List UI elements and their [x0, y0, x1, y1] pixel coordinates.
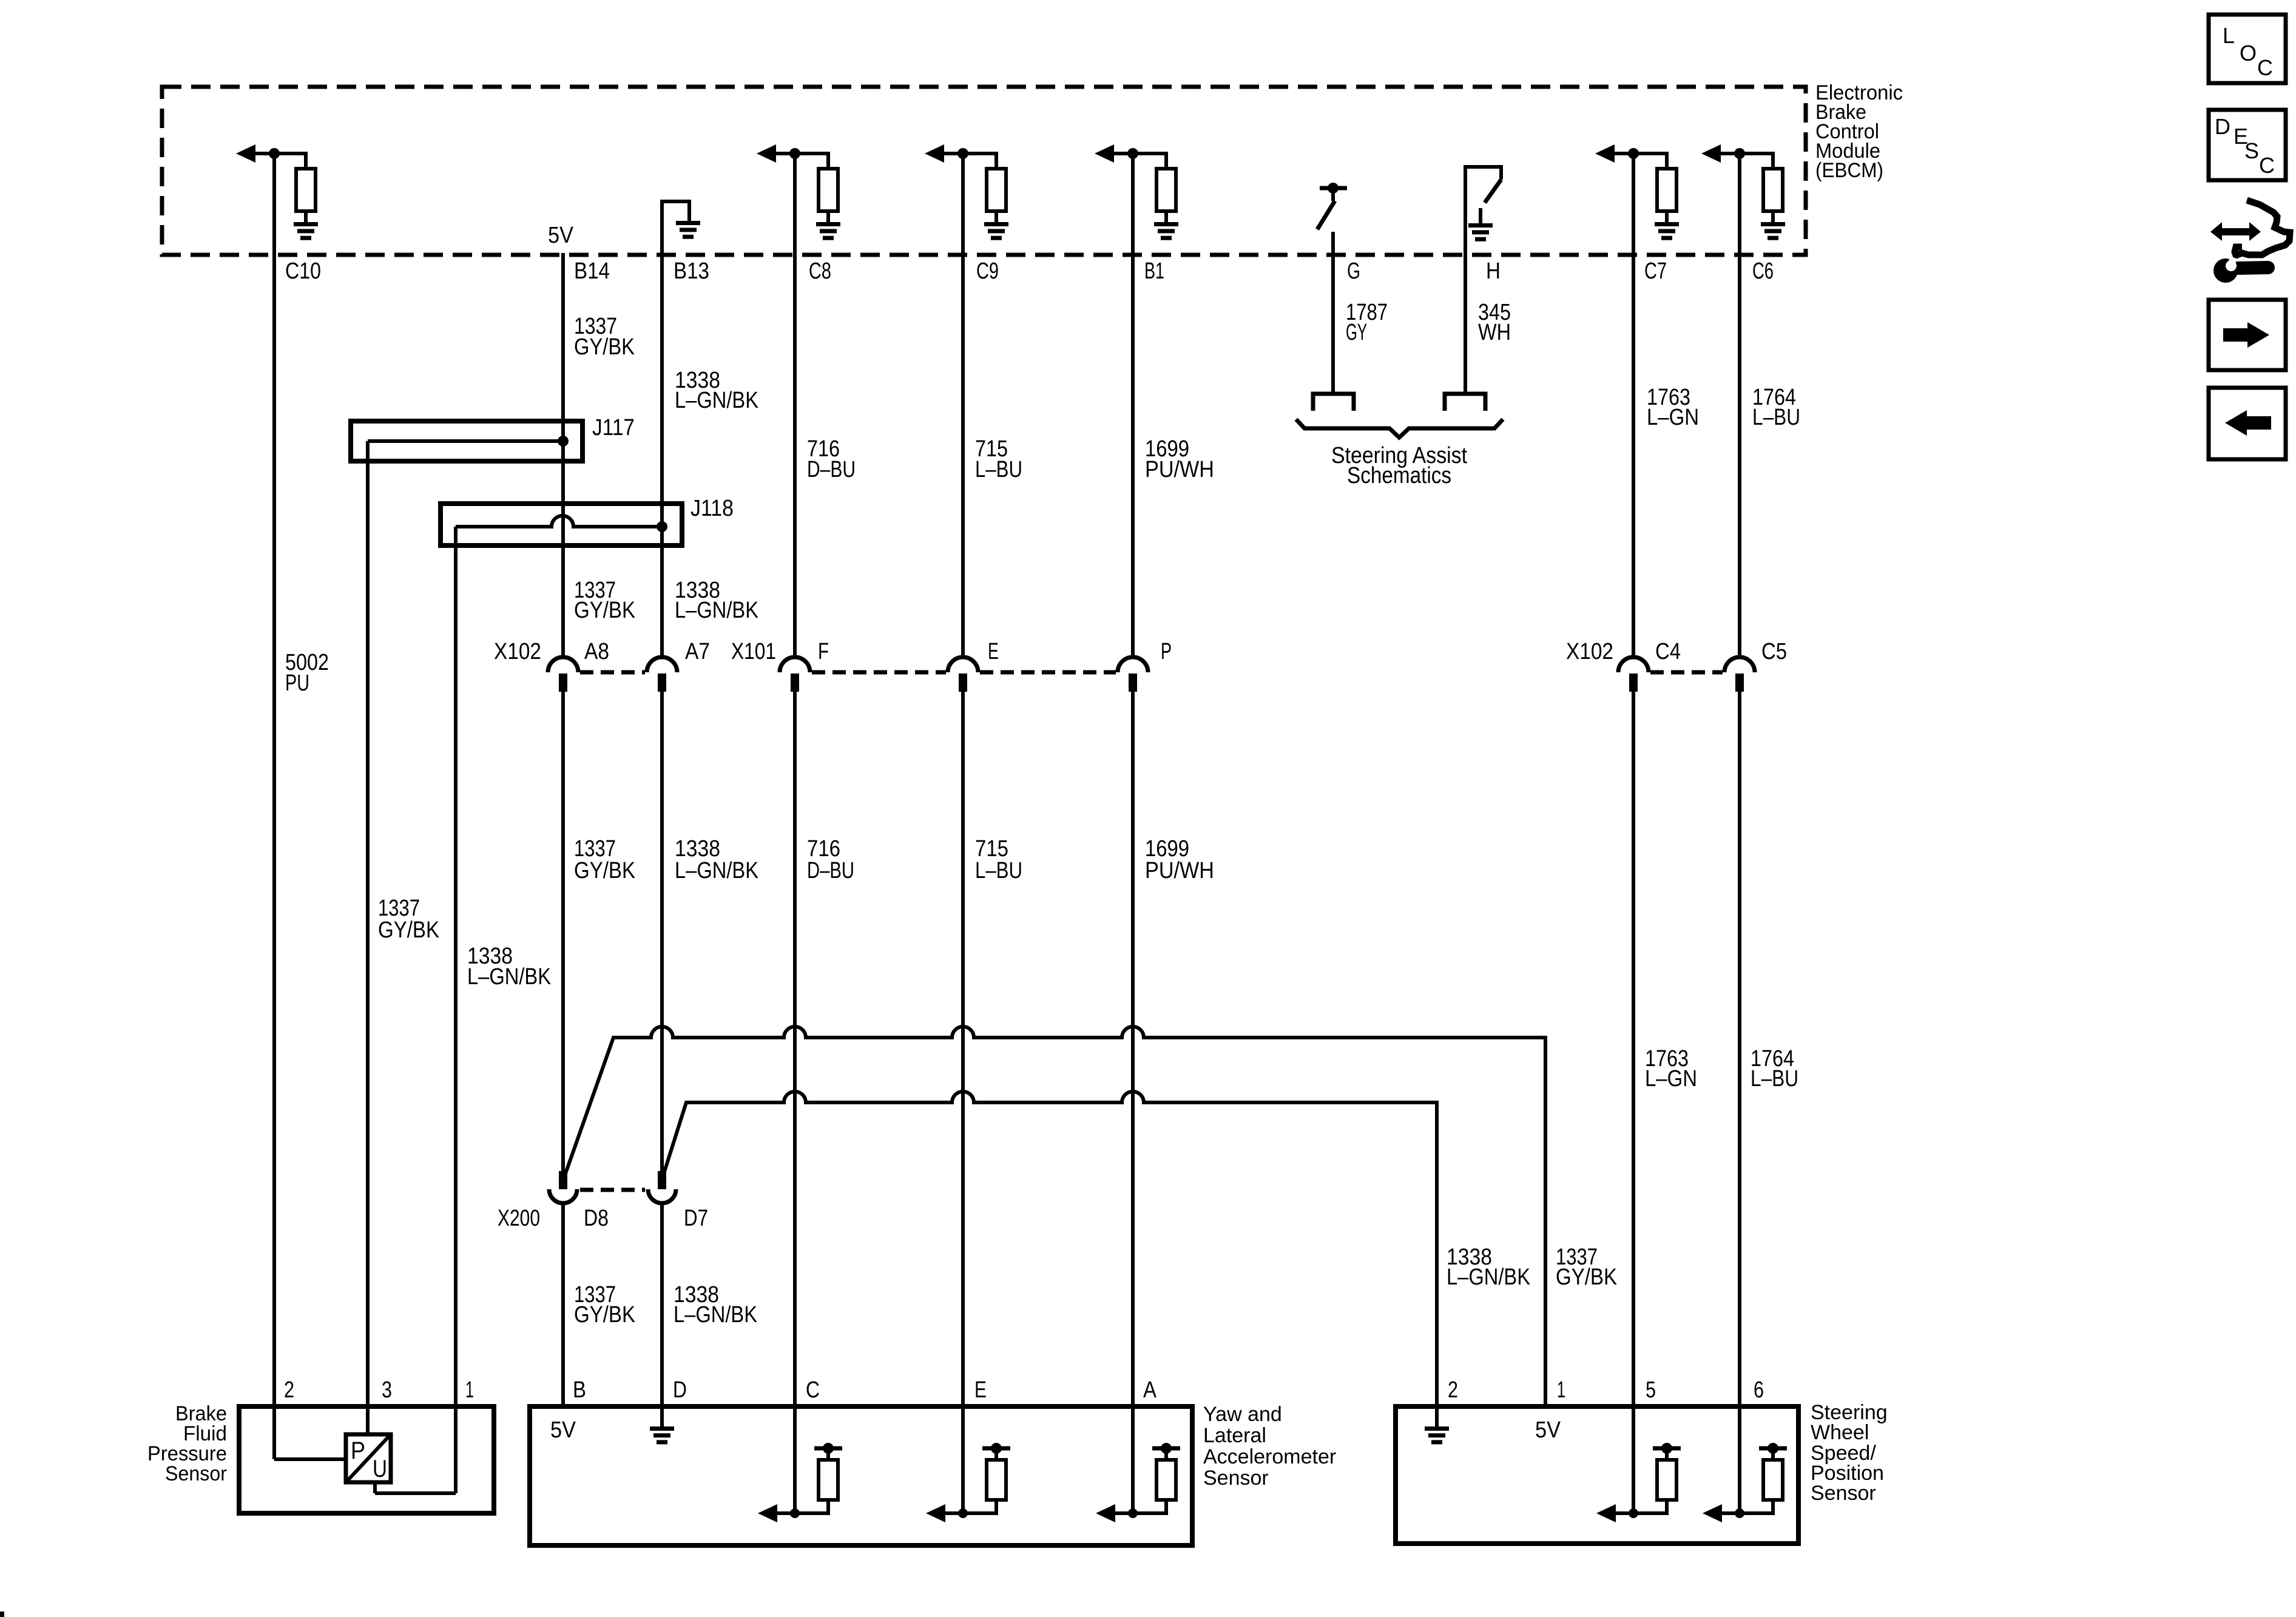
pin label B (yaw sensor) [573, 1377, 586, 1403]
svg-text:F: F [818, 639, 829, 664]
svg-text:6: 6 [1754, 1377, 1764, 1403]
label 1763 L-GN (mid) [1645, 1046, 1697, 1092]
svg-text:S: S [2244, 138, 2259, 163]
svg-text:X102: X102 [1566, 639, 1613, 664]
label 715 L-BU (upper) [975, 436, 1022, 482]
svg-text:U: U [373, 1456, 387, 1482]
pin label 1 (steering sensor) [1557, 1377, 1565, 1403]
wire 716 D-BU segment (C8 to X101 F) [793, 154, 797, 659]
svg-text:GY/BK: GY/BK [378, 917, 439, 943]
svg-text:C7: C7 [1644, 258, 1667, 284]
pin label C9 [976, 258, 999, 284]
pin label H [1486, 258, 1501, 284]
svg-text:5: 5 [1646, 1377, 1656, 1403]
label 5002 PU (on C10 wire) [285, 650, 329, 696]
label 716 D-BU (mid) [807, 836, 854, 883]
icon box forward arrow [2209, 300, 2286, 370]
wire 1338 L-GN/BK segment (D7 to yaw sensor pin D) [660, 1203, 664, 1406]
wire 1337 GY/BK branch (J117 to pressure sensor pin 3) [366, 461, 370, 1434]
svg-text:Accelerometer: Accelerometer [1203, 1445, 1336, 1468]
svg-text:D8: D8 [584, 1206, 609, 1231]
svg-text:B: B [573, 1377, 586, 1403]
label J118 [690, 496, 734, 521]
svg-text:GY/BK: GY/BK [574, 1302, 635, 1328]
internal sense resistor at yaw pin A [1096, 1443, 1180, 1522]
EBCM internal switch to ground at pin H [1465, 167, 1501, 255]
label 715 L-BU (mid) [975, 836, 1022, 883]
internal ground at steering sensor pin 2 [1425, 1406, 1449, 1442]
svg-text:L: L [2223, 23, 2235, 48]
svg-text:C6: C6 [1752, 258, 1774, 284]
label X102 (left) [494, 639, 541, 664]
internal sense resistor at yaw pin E [926, 1443, 1010, 1522]
svg-text:1: 1 [465, 1377, 474, 1403]
label 1337 GY/BK (mid, on B14 wire) [574, 836, 635, 883]
wire 345 WH (H to steering assist schematics) [1464, 255, 1467, 393]
splice pack J118 [441, 504, 682, 545]
svg-text:WH: WH [1478, 320, 1511, 345]
svg-text:2: 2 [284, 1377, 294, 1403]
wire 1787 GY (G to steering assist schematics) [1331, 232, 1335, 393]
svg-text:A7: A7 [685, 639, 710, 664]
label Steering Assist Schematics [1331, 443, 1467, 488]
label P [1161, 639, 1172, 664]
svg-text:D: D [673, 1377, 687, 1403]
svg-text:O: O [2240, 41, 2257, 66]
pin label 6 (steering sensor) [1754, 1377, 1764, 1403]
EBCM internal ground at pin B13 [662, 201, 700, 255]
svg-text:P: P [1161, 639, 1172, 664]
svg-text:L–GN: L–GN [1647, 405, 1699, 430]
svg-text:L–GN: L–GN [1645, 1066, 1697, 1092]
wire 1337 GY/BK bus (X200 D8 to steering sensor pin 1) [566, 1027, 1545, 1406]
pin label B14 [574, 258, 610, 284]
svg-text:X200: X200 [498, 1206, 540, 1231]
label D8 [584, 1206, 609, 1231]
label 5V (steering sensor internal) [1535, 1417, 1561, 1443]
internal ground at yaw sensor pin D [650, 1406, 674, 1442]
label Yaw and Lateral Accelerometer Sensor [1203, 1403, 1336, 1490]
svg-text:X102: X102 [494, 639, 541, 664]
label 1763 L-GN (upper) [1647, 385, 1699, 430]
svg-text:C4: C4 [1655, 639, 1681, 664]
wire 715 L-BU segment (C9 to X101 E) [961, 154, 965, 659]
label 1337 GY/BK (below B14) [574, 314, 635, 360]
connector X200 terminal D7 [648, 1171, 676, 1203]
label Brake Fluid Pressure Sensor [147, 1402, 227, 1485]
svg-text:Sensor: Sensor [1811, 1482, 1876, 1505]
svg-text:C: C [2257, 55, 2273, 80]
connector X102 terminal C4 [1618, 657, 1649, 692]
pin label B1 [1144, 258, 1164, 284]
svg-text:J118: J118 [690, 496, 734, 521]
label X102 (right) [1566, 639, 1613, 664]
svg-text:2: 2 [1448, 1377, 1458, 1403]
dashed connector tie F-E [812, 670, 946, 675]
wire 1337 GY/BK segment (A8 to X200 D8) [561, 692, 565, 1172]
wire 715 L-BU segment (E to yaw sensor pin E) [961, 692, 965, 1514]
splice pack J117 [351, 421, 582, 461]
svg-text:A8: A8 [584, 639, 609, 664]
dashed connector tie C4-C5 [1650, 670, 1723, 675]
internal wire pin 2 to transducer [274, 1457, 346, 1461]
wire 1764 L-BU segment (C6 to X102 C5) [1738, 154, 1741, 659]
wire 1338 L-GN/BK segment (A7 to X200 D7) [660, 692, 664, 1172]
wire 1763 L-GN segment (C4 to steering sensor pin 5) [1632, 692, 1635, 1514]
icon double arrow with route and wrench [2210, 200, 2290, 283]
pin label E (yaw sensor) [974, 1377, 987, 1403]
label D7 [684, 1206, 708, 1231]
svg-text:PU/WH: PU/WH [1145, 858, 1214, 883]
connector X101 terminal P [1118, 657, 1148, 692]
svg-text:B1: B1 [1144, 258, 1164, 284]
label J117 [592, 415, 635, 441]
label A8 [584, 639, 609, 664]
label 1699 PU/WH (upper) [1145, 436, 1214, 482]
Steering Wheel Speed/Position Sensor box [1396, 1406, 1798, 1544]
icon box LOC [2209, 15, 2286, 83]
label 1338 L-GN/BK (mid, on B13 wire) [675, 836, 758, 883]
connector X101 terminal F [780, 657, 810, 692]
svg-text:C9: C9 [976, 258, 999, 284]
svg-text:G: G [1347, 258, 1360, 284]
svg-text:L–BU: L–BU [1752, 405, 1800, 430]
page corner mark [0, 1612, 4, 1617]
pin label 2 (pressure sensor) [284, 1377, 294, 1403]
svg-text:Sensor: Sensor [1203, 1467, 1269, 1490]
svg-text:3: 3 [382, 1377, 392, 1403]
svg-text:5V: 5V [1535, 1417, 1561, 1443]
pin label C7 [1644, 258, 1667, 284]
svg-text:L–GN/BK: L–GN/BK [467, 964, 551, 990]
label 5V (yaw sensor internal) [550, 1417, 576, 1443]
connector X101 terminal E [948, 657, 978, 692]
label 1699 PU/WH (mid) [1145, 836, 1214, 883]
wire 1699 PU/WH segment (P to yaw sensor pin A) [1131, 692, 1135, 1514]
svg-text:D: D [2215, 114, 2230, 139]
wire 1337 GY/BK segment (D8 to yaw sensor pin B) [561, 1203, 565, 1406]
svg-text:Sensor: Sensor [165, 1462, 227, 1485]
svg-text:C: C [2259, 153, 2275, 178]
svg-text:D–BU: D–BU [807, 457, 856, 482]
svg-text:PU/WH: PU/WH [1145, 457, 1214, 482]
wire 1338 L-GN/BK segment (B13 pin to X102 A7) [660, 253, 664, 659]
pin label C8 [809, 258, 831, 284]
label A7 [685, 639, 710, 664]
pressure transducer P/U symbol [346, 1434, 391, 1482]
svg-text:L–GN/BK: L–GN/BK [675, 388, 758, 413]
pin label 1 (pressure sensor) [465, 1377, 474, 1403]
svg-text:E: E [988, 639, 999, 664]
svg-text:Wheel: Wheel [1811, 1421, 1869, 1444]
svg-text:1: 1 [1557, 1377, 1565, 1403]
wire 1337 GY/BK segment (B14 pin to X102 A8) [561, 253, 565, 659]
receptacle for H wire (to steering assist schematics) [1445, 394, 1485, 411]
label C5 [1761, 639, 1787, 664]
pin label D (yaw sensor) [673, 1377, 687, 1403]
svg-text:C: C [806, 1377, 820, 1403]
label 1764 L-BU (mid) [1751, 1046, 1798, 1092]
svg-text:P: P [351, 1437, 365, 1464]
label 345 WH [1478, 300, 1511, 345]
EBCM internal switch contact at pin G [1317, 183, 1347, 229]
Yaw and Lateral Accelerometer Sensor box [530, 1406, 1192, 1545]
brace (steering assist schematics) [1296, 419, 1503, 437]
svg-text:Yaw and: Yaw and [1203, 1403, 1282, 1426]
EBCM internal circuit at pin C10 (arrow, junction, resistor, ground) [236, 144, 318, 238]
label 1337 GY/BK (below X200) [574, 1282, 635, 1328]
wire 1764 L-BU segment (C5 to steering sensor pin 6) [1738, 692, 1741, 1514]
receptacle for G wire (to steering assist schematics) [1313, 394, 1354, 411]
svg-text:GY/BK: GY/BK [1556, 1264, 1617, 1290]
label 1338 L-GN/BK (below B13) [675, 368, 758, 413]
wire 1338 L-GN/BK bus (X200 D7 to steering sensor pin 2) [664, 1092, 1437, 1406]
pin label G [1347, 258, 1360, 284]
svg-text:Lateral: Lateral [1203, 1424, 1266, 1447]
svg-text:Schematics: Schematics [1347, 463, 1451, 488]
pin label 5 (steering sensor) [1646, 1377, 1656, 1403]
svg-text:GY: GY [1346, 320, 1367, 345]
svg-text:5V: 5V [550, 1417, 576, 1443]
pin label B13 [674, 258, 709, 284]
pin label C10 [285, 258, 321, 284]
svg-text:L–BU: L–BU [1751, 1066, 1798, 1092]
pin label 2 (steering sensor) [1448, 1377, 1458, 1403]
internal sense resistor at steering pin 6 [1703, 1443, 1787, 1522]
EBCM module name label [1815, 81, 1903, 182]
icon box DESC [2209, 110, 2286, 180]
label 1337 GY/BK (below J118 on B14 wire) [574, 578, 635, 623]
label 1337 GY/BK (on J117 branch) [378, 896, 439, 943]
label 1338 L-GN/BK (below J118 on B13 wire) [675, 578, 758, 623]
label X101 [731, 639, 776, 664]
Brake Fluid Pressure Sensor box [239, 1406, 494, 1513]
connector X102 terminal A8 [548, 657, 578, 692]
label 1337 GY/BK (at steering sensor pin 1) [1556, 1244, 1617, 1290]
svg-text:X101: X101 [731, 639, 776, 664]
EBCM internal circuit at pin B1 [1095, 144, 1178, 238]
svg-text:D7: D7 [684, 1206, 708, 1231]
wire 716 D-BU segment (F to yaw sensor pin C) [793, 692, 797, 1514]
label 716 D-BU (upper) [807, 436, 856, 482]
svg-text:D–BU: D–BU [807, 858, 854, 883]
label 1338 L-GN/BK (on J118 branch) [467, 944, 551, 990]
svg-text:C5: C5 [1761, 639, 1787, 664]
svg-text:L–BU: L–BU [975, 858, 1022, 883]
pin label A (yaw sensor) [1143, 1377, 1157, 1403]
wire 1699 PU/WH segment (B1 to X101 P) [1131, 154, 1135, 659]
label X200 [498, 1206, 540, 1231]
svg-text:E: E [974, 1377, 987, 1403]
svg-text:L–GN/BK: L–GN/BK [1447, 1264, 1530, 1290]
svg-text:A: A [1143, 1377, 1157, 1403]
connector X200 terminal D8 [549, 1171, 577, 1203]
pin label C6 [1752, 258, 1774, 284]
EBCM module outline (dashed box) [162, 87, 1806, 255]
wire 1338 L-GN/BK branch (J118 to pressure sensor pin 1) [454, 545, 458, 1493]
EBCM internal circuit at pin C8 [757, 144, 840, 238]
dashed connector tie E-P [980, 670, 1116, 675]
EBCM internal circuit at pin C6 [1701, 144, 1785, 238]
label 1764 L-BU (upper) [1752, 385, 1800, 430]
label Steering Wheel Speed/Position Sensor [1811, 1401, 1888, 1505]
EBCM internal circuit at pin C7 [1595, 144, 1679, 238]
label E [988, 639, 999, 664]
svg-text:GY/BK: GY/BK [574, 858, 635, 883]
dashed connector tie A8-A7 [580, 670, 645, 675]
label F [818, 639, 829, 664]
internal sense resistor at yaw pin C [758, 1443, 842, 1522]
svg-text:L–BU: L–BU [975, 457, 1022, 482]
svg-text:5V: 5V [548, 223, 574, 248]
EBCM internal circuit at pin C9 [925, 144, 1008, 238]
svg-text:C8: C8 [809, 258, 831, 284]
internal wire transducer to pin 1 [375, 1482, 456, 1493]
svg-text:C10: C10 [285, 258, 321, 284]
pin label 3 (pressure sensor) [382, 1377, 392, 1403]
internal sense resistor at steering pin 5 [1596, 1443, 1681, 1522]
connector X102 terminal A7 [647, 657, 677, 692]
svg-text:(EBCM): (EBCM) [1815, 159, 1883, 182]
label C4 [1655, 639, 1681, 664]
label 5V supply at B14 [548, 223, 574, 248]
connector X102 terminal C5 [1724, 657, 1755, 692]
wire 5002 PU (C10 to brake fluid pressure sensor pin 2) [272, 154, 276, 1459]
wire 1763 L-GN segment (C7 to X102 C4) [1632, 154, 1635, 659]
label 1338 L-GN/BK (below X200) [674, 1282, 757, 1328]
icon box back arrow [2209, 388, 2286, 459]
svg-text:B13: B13 [674, 258, 709, 284]
dashed connector tie D8-D7 [580, 1188, 645, 1192]
svg-text:L–GN/BK: L–GN/BK [675, 858, 758, 883]
svg-text:L–GN/BK: L–GN/BK [675, 598, 758, 623]
svg-text:PU: PU [285, 670, 309, 696]
svg-text:J117: J117 [592, 415, 635, 441]
label 1338 L-GN/BK (at steering sensor pin 2) [1447, 1244, 1530, 1290]
svg-text:H: H [1486, 258, 1501, 284]
pin label C (yaw sensor) [806, 1377, 820, 1403]
label 1787 GY [1346, 300, 1388, 345]
svg-text:B14: B14 [574, 258, 610, 284]
svg-text:L–GN/BK: L–GN/BK [674, 1302, 757, 1328]
svg-text:GY/BK: GY/BK [574, 334, 635, 360]
svg-text:GY/BK: GY/BK [574, 598, 635, 623]
